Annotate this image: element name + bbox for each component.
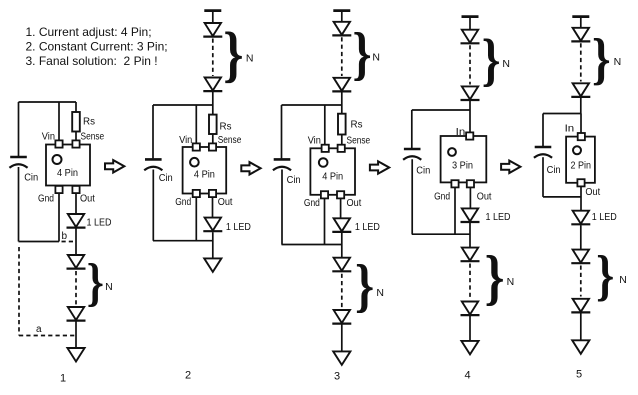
diode D4 top string, circuit 2 <box>203 23 222 37</box>
wire: circuit 4 supply stem <box>469 17 471 30</box>
resistor Rs, circuit 1 <box>72 112 80 132</box>
wire: circuit 1 top rail <box>19 101 77 103</box>
pin-1 mark of U1 <box>53 155 62 164</box>
wire: circuit 1 LED cathode to node b <box>75 229 77 256</box>
wire: circuit 3 Gnd drop <box>324 198 326 244</box>
svg-text:Rs: Rs <box>351 120 363 131</box>
wire: circuit 5 left rail lower <box>542 157 544 197</box>
svg-text:Out: Out <box>218 197 233 208</box>
pin Out of U3 <box>337 191 344 198</box>
svg-text:Gnd: Gnd <box>175 197 191 208</box>
wire: circuit 4 Gnd drop <box>454 187 456 234</box>
wire: circuit 5 top string to rail <box>580 97 582 113</box>
svg-text:In: In <box>565 124 575 135</box>
supply terminal, circuit 4 <box>462 15 479 18</box>
wire: dashed bottom string gap, circuit 5 <box>580 266 582 297</box>
diode D21, circuit 5 <box>571 299 590 313</box>
svg-text:1: 1 <box>60 373 66 385</box>
diode D13 top string, circuit 4 <box>461 86 480 100</box>
svg-text:1 LED: 1 LED <box>355 221 380 233</box>
svg-text:Out: Out <box>585 187 600 198</box>
pin Vin of U1 <box>55 140 62 147</box>
svg-text:}: } <box>596 245 614 307</box>
wire: circuit 2 Rs top lead <box>212 105 214 115</box>
wire: circuit 1 left rail lower <box>18 167 20 242</box>
wire: circuit 2 top rail <box>153 104 213 106</box>
pin Sense of U1 <box>72 140 79 147</box>
capacitor Cin, circuit 5 <box>534 147 552 158</box>
capacitor Cin, circuit 4 <box>403 149 421 160</box>
ground, circuit 4 <box>461 341 478 355</box>
pin Gnd of U4 <box>451 180 458 187</box>
diode D8 top string, circuit 3 <box>332 78 351 92</box>
svg-text:Cin: Cin <box>416 165 430 176</box>
wire: dashed bottom string gap, circuit 3 <box>341 274 343 308</box>
wire: circuit 1 left rail upper <box>18 102 20 156</box>
pin In of U4 <box>466 132 473 139</box>
wire: circuit 3 left rail upper <box>281 105 283 158</box>
svg-text:}: } <box>592 28 611 91</box>
LED D14, circuit 4 <box>461 208 480 222</box>
IC U2 '4 Pin', circuit 2 <box>183 147 227 194</box>
capacitor Cin, circuit 3 <box>273 159 291 170</box>
svg-text:Rs: Rs <box>220 121 232 132</box>
wire: circuit 3 Rs top lead <box>341 105 343 114</box>
wire: circuit 2 supply stem <box>212 11 214 23</box>
diode D18 top string, circuit 5 <box>571 83 590 97</box>
svg-text:Cin: Cin <box>287 175 301 186</box>
wire: circuit 4 top rail <box>412 109 470 111</box>
diode D17 top string, circuit 5 <box>571 28 590 42</box>
svg-text:Cin: Cin <box>159 173 173 184</box>
pin-1 mark of U5 <box>573 146 581 154</box>
svg-text:2 Pin: 2 Pin <box>571 160 592 172</box>
arrow between circuit 2 and 3 <box>241 162 260 174</box>
wire: circuit 4 string lower <box>469 316 471 341</box>
wire: circuit 4 top string to rail <box>469 100 471 110</box>
wire: circuit 4 In drop <box>469 110 471 133</box>
wire: circuit 1 Vin drop <box>58 102 60 141</box>
LED D9, circuit 3 <box>332 218 351 232</box>
ground, circuit 2 <box>204 258 221 272</box>
pin Gnd of U2 <box>193 190 200 197</box>
wire: circuit 4 LED cathode to junction <box>469 223 471 248</box>
IC U1 '4 Pin', circuit 1 <box>46 145 90 186</box>
wire: circuit 3 string lower <box>341 325 343 352</box>
wire: circuit 1 Rs bottom lead <box>75 132 77 142</box>
wire: circuit 2 ground return horizontal <box>153 240 213 242</box>
svg-text:Out: Out <box>477 191 492 202</box>
svg-text:Out: Out <box>347 198 362 209</box>
diode D12 top string, circuit 4 <box>461 30 480 44</box>
ground, circuit 5 <box>572 340 589 354</box>
svg-text:N: N <box>507 276 515 288</box>
pin-1 mark of U3 <box>319 158 328 167</box>
diode D20, circuit 5 <box>571 250 590 264</box>
svg-text:a: a <box>36 324 42 335</box>
LED D1, circuit 1 <box>67 214 86 228</box>
svg-text:Cin: Cin <box>24 173 38 184</box>
supply terminal, circuit 2 <box>204 9 221 12</box>
diode D7 top string, circuit 3 <box>332 22 351 36</box>
svg-text:4 Pin: 4 Pin <box>322 171 343 183</box>
svg-text:3: 3 <box>334 371 340 383</box>
svg-text:}: } <box>352 20 371 86</box>
wire: circuit 3 left rail lower <box>281 170 283 245</box>
supply terminal, circuit 5 <box>572 15 589 18</box>
svg-text:5: 5 <box>576 369 582 381</box>
svg-text:}: } <box>482 29 501 92</box>
pin Out of U2 <box>209 190 216 197</box>
wire: circuit 4 Out to LED <box>469 187 471 208</box>
wire: circuit 1 string lower <box>75 322 77 349</box>
wire: circuit 5 In drop <box>580 114 582 134</box>
svg-text:N: N <box>614 56 622 68</box>
wire: circuit 3 supply stem <box>341 11 343 22</box>
svg-text:1 LED: 1 LED <box>486 211 511 223</box>
wire: circuit 1 Out to LED <box>75 194 77 215</box>
pin Sense of U3 <box>338 145 345 152</box>
pin Vin of U3 <box>322 145 329 152</box>
wire: circuit 3 Vin drop <box>324 105 326 145</box>
wire: circuit 1 Rs top lead <box>75 102 77 112</box>
capacitor Cin, circuit 2 <box>144 159 162 170</box>
svg-text:Out: Out <box>80 193 95 204</box>
svg-text:4 Pin: 4 Pin <box>57 167 78 179</box>
wire: circuit 2 left rail upper <box>152 105 154 158</box>
svg-text:4: 4 <box>464 370 470 382</box>
svg-text:1 LED: 1 LED <box>226 221 251 233</box>
svg-text:Rs: Rs <box>83 117 95 128</box>
svg-text:Sense: Sense <box>81 132 105 143</box>
wire: circuit 3 LED cathode to junction <box>341 233 343 258</box>
diode D5 top string, circuit 2 <box>203 78 222 92</box>
svg-text:Gnd: Gnd <box>304 198 320 209</box>
wire: dashed top string gap, circuit 2 <box>212 39 214 77</box>
ground, circuit 1 <box>67 348 84 362</box>
svg-text:N: N <box>372 52 380 64</box>
svg-text:Cin: Cin <box>547 165 561 176</box>
pin Out of U4 <box>467 180 474 187</box>
svg-text:N: N <box>246 53 254 65</box>
arrow between circuit 3 and 4 <box>370 161 389 173</box>
diode D15, circuit 4 <box>461 248 480 262</box>
svg-text:}: } <box>355 253 374 319</box>
pin Gnd of U1 <box>55 186 62 193</box>
pin Vin of U2 <box>193 143 200 150</box>
wire: circuit 5 Out to LED <box>580 186 582 210</box>
wire: circuit 5 string lower <box>580 313 582 341</box>
wire: circuit 1 Gnd drop <box>58 194 60 242</box>
svg-text:N: N <box>502 58 510 70</box>
wire: circuit 3 top rail <box>282 104 342 106</box>
resistor Rs, circuit 3 <box>338 114 346 135</box>
diode D3, circuit 1 <box>67 307 86 321</box>
svg-text:Sense: Sense <box>347 136 371 147</box>
svg-text:N: N <box>376 287 384 299</box>
svg-text:3 Pin: 3 Pin <box>452 160 473 172</box>
wire: circuit 3 top string to rail <box>341 92 343 105</box>
wire: circuit 2 top string to rail <box>212 92 214 106</box>
ground, circuit 3 <box>333 351 350 365</box>
svg-text:N: N <box>619 274 627 286</box>
svg-text:}: } <box>223 20 243 89</box>
wire: circuit 2 Gnd drop <box>195 197 197 241</box>
wire: dashed left bypass vertical, circuit 1 <box>18 247 20 336</box>
svg-text:In: In <box>456 127 466 138</box>
svg-text:1 LED: 1 LED <box>87 217 112 229</box>
diode D10, circuit 3 <box>332 258 351 272</box>
wire: circuit 2 left rail lower <box>152 170 154 241</box>
wire: circuit 5 LED cathode to string <box>580 225 582 249</box>
wire: circuit 3 ground return horizontal <box>282 244 342 246</box>
wire: dashed string gap, circuit 1 <box>75 271 77 305</box>
pin Gnd of U3 <box>321 191 328 198</box>
arrow between circuit 4 and 5 <box>501 161 520 173</box>
wire: dashed tap to node a, circuit 1 <box>19 335 76 337</box>
svg-text:N: N <box>105 281 113 293</box>
wire: circuit 2 Rs bottom lead <box>212 134 214 144</box>
svg-text:}: } <box>485 244 505 312</box>
wire: circuit 5 top rail <box>543 113 581 115</box>
wire: circuit 4 ground return horizontal <box>412 233 470 235</box>
pin Sense of U2 <box>209 143 216 150</box>
IC U3 '4 Pin', circuit 3 <box>310 148 355 195</box>
arrow between circuit 1 and 2 <box>105 160 124 172</box>
svg-text:}: } <box>87 253 104 312</box>
wire: circuit 4 left rail lower <box>411 159 413 234</box>
wire: circuit 2 LED cathode to ground <box>212 232 214 258</box>
LED D19, circuit 5 <box>571 211 590 225</box>
svg-text:b: b <box>62 231 68 242</box>
wire: circuit 2 Out to LED <box>212 197 214 218</box>
svg-text:Gnd: Gnd <box>434 191 450 202</box>
diode D2, circuit 1 <box>67 255 86 269</box>
diode D11, circuit 3 <box>332 310 351 324</box>
svg-text:Sense: Sense <box>218 135 242 146</box>
wire: dashed top string gap, circuit 3 <box>341 37 343 76</box>
IC U5 '2 Pin', circuit 5 <box>566 137 595 183</box>
svg-text:1 LED: 1 LED <box>592 211 617 223</box>
svg-text:2. Constant Current: 3 Pin;: 2. Constant Current: 3 Pin; <box>26 40 168 54</box>
wire: circuit 4 left rail upper <box>411 110 413 148</box>
svg-text:3. Fanal solution: 2 Pin !: 3. Fanal solution: 2 Pin ! <box>26 54 158 68</box>
wire: circuit 5 supply stem <box>580 17 582 28</box>
wire: dashed bottom string gap, circuit 4 <box>469 264 471 298</box>
svg-text:4 Pin: 4 Pin <box>194 168 215 180</box>
wire: dashed tap to node b, circuit 1 <box>62 241 77 243</box>
pin Out of U5 <box>577 179 584 186</box>
resistor Rs, circuit 2 <box>209 115 217 134</box>
svg-text:Vin: Vin <box>179 135 192 146</box>
svg-text:Vin: Vin <box>308 136 321 147</box>
wire: circuit 5 return horizontal to Out node <box>543 196 581 198</box>
svg-text:Vin: Vin <box>42 132 55 143</box>
svg-text:Gnd: Gnd <box>38 193 54 204</box>
wire: dashed top string gap, circuit 4 <box>469 45 471 84</box>
pin In of U5 <box>578 133 585 140</box>
wire: circuit 1 ground return horizontal <box>19 241 60 243</box>
wire: circuit 3 Rs bottom lead <box>341 135 343 146</box>
svg-text:2: 2 <box>185 370 191 382</box>
wire: dashed top string gap, circuit 5 <box>580 43 582 81</box>
supply terminal, circuit 3 <box>333 9 350 12</box>
LED D6, circuit 2 <box>203 218 222 232</box>
svg-text:1. Current adjust: 4 Pin;: 1. Current adjust: 4 Pin; <box>26 25 152 39</box>
wire: circuit 2 Vin drop <box>195 105 197 144</box>
diode D16, circuit 4 <box>461 302 480 316</box>
IC U4 '3 Pin', circuit 4 <box>441 136 487 182</box>
pin Out of U1 <box>72 186 79 193</box>
pin-1 mark of U4 <box>448 148 456 156</box>
capacitor Cin, circuit 1 <box>9 157 27 168</box>
wire: circuit 5 left rail upper <box>542 114 544 147</box>
pin-1 mark of U2 <box>190 158 199 167</box>
wire: circuit 3 Out to LED <box>340 198 342 218</box>
